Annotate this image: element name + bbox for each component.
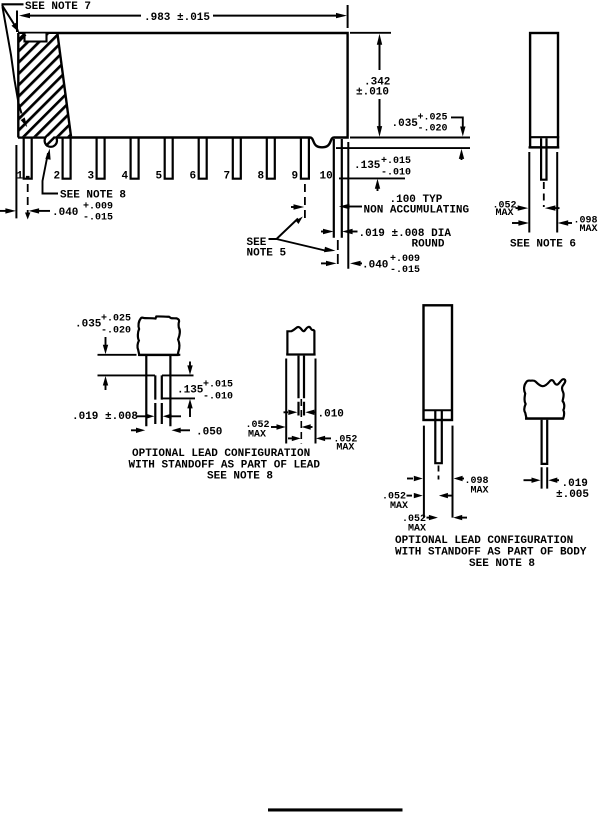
SEE NOTE 5 leader — [247, 217, 336, 260]
pin 8 — [267, 138, 275, 179]
detail A extension lines — [98, 354, 137, 356]
svg-text:.050: .050 — [196, 427, 222, 439]
svg-text:.035: .035 — [392, 118, 419, 130]
svg-text:MAX: MAX — [336, 442, 354, 453]
svg-text:.010: .010 — [318, 409, 344, 421]
svg-text:NOTE 5: NOTE 5 — [247, 247, 287, 259]
detail C dimension .052 MAX (lower) — [402, 514, 467, 535]
svg-text:10: 10 — [320, 171, 333, 183]
svg-text:MAX: MAX — [248, 430, 266, 441]
svg-text:OPTIONAL LEAD CONFIGURATION: OPTIONAL LEAD CONFIGURATION — [132, 448, 310, 460]
pin 10 — [334, 139, 342, 238]
svg-text:MAX: MAX — [471, 486, 489, 497]
SEE NOTE 8 leader (top left) — [43, 149, 127, 202]
detail D lead — [542, 420, 548, 464]
detail A dimension .019 — [72, 411, 181, 423]
detail B dimension .052 MAX (left) — [246, 420, 313, 441]
dimension .135 +.015 -.010 (top) — [354, 156, 411, 191]
svg-text:OPTIONAL LEAD CONFIGURATION: OPTIONAL LEAD CONFIGURATION — [395, 535, 573, 547]
dimension .983 +-.015 — [19, 12, 347, 24]
body right edge extension (up) — [347, 5, 349, 28]
detail A dimension .050 — [131, 427, 222, 439]
pin 4 — [131, 138, 139, 179]
svg-text:-.010: -.010 — [203, 392, 233, 403]
svg-text:.019 ±.008: .019 ±.008 — [72, 411, 138, 423]
svg-text:SEE NOTE 6: SEE NOTE 6 — [510, 239, 576, 251]
dimension .098 MAX (side view) — [512, 216, 598, 236]
detail B dimension .010 — [284, 409, 344, 421]
svg-text:WITH STANDOFF AS PART OF LEAD: WITH STANDOFF AS PART OF LEAD — [129, 459, 321, 471]
body bottom extension (right) — [350, 137, 470, 139]
dimension .342 +-.010 — [350, 33, 391, 137]
pin 6 — [199, 138, 207, 179]
break wedge line at left end — [3, 7, 22, 114]
svg-text:4: 4 — [122, 171, 129, 183]
side view pin — [541, 138, 546, 179]
detail C pin centerline — [438, 466, 440, 480]
detail C extension lines — [423, 426, 425, 518]
side view body (top right) — [529, 33, 560, 147]
detail C pin — [435, 410, 442, 463]
svg-text:+.025: +.025 — [418, 113, 448, 124]
svg-text:±.010: ±.010 — [356, 87, 389, 99]
pin 9 centerline — [304, 184, 306, 222]
svg-text:.983 ±.015: .983 ±.015 — [144, 12, 210, 24]
pin 5 — [165, 138, 173, 179]
svg-text:.040: .040 — [52, 207, 78, 219]
standoff ball bump near pin 2 — [45, 134, 57, 146]
svg-text:ROUND: ROUND — [412, 239, 445, 251]
svg-text:+.009: +.009 — [390, 254, 420, 265]
dimension .052 MAX (side view) — [493, 201, 560, 219]
left extension (up) for .983 — [16, 11, 18, 33]
body outline (front view) — [18, 33, 348, 147]
svg-text:-.015: -.015 — [83, 213, 113, 224]
svg-text:+.015: +.015 — [203, 380, 233, 391]
svg-text:8: 8 — [258, 171, 265, 183]
svg-text:MAX: MAX — [496, 208, 514, 219]
detail B body bottom — [286, 353, 315, 355]
svg-text:-.010: -.010 — [381, 168, 411, 179]
svg-text:SEE NOTE 8: SEE NOTE 8 — [469, 558, 535, 570]
dimension .035 +.025 -.020 (top) — [392, 113, 466, 161]
DETAIL D: torn body blob — [524, 379, 565, 418]
left edge extension line — [15, 145, 17, 218]
svg-text:.135: .135 — [354, 160, 381, 172]
svg-text:9: 9 — [292, 171, 299, 183]
pin 1 centerline — [27, 184, 29, 213]
svg-text:3: 3 — [88, 171, 95, 183]
detail A lead: wide standoff lines — [146, 356, 170, 427]
dimension .040 +.003 -.015 (right) — [321, 254, 420, 276]
svg-text:±.005: ±.005 — [556, 489, 589, 501]
detail D lead extension stubs — [542, 467, 548, 488]
pin 7 — [233, 138, 241, 179]
svg-text:+.015: +.015 — [381, 156, 411, 167]
detail B dimension .052 MAX (right) — [288, 435, 357, 454]
body right edge extension (down) — [347, 142, 349, 269]
svg-text:5: 5 — [156, 171, 163, 183]
svg-text:MAX: MAX — [580, 224, 598, 235]
detail D body bottom — [525, 417, 564, 419]
detail B lead — [299, 356, 305, 416]
pin 10 centerline — [337, 240, 339, 268]
svg-text:2: 2 — [54, 171, 61, 183]
svg-text:SEE NOTE 8: SEE NOTE 8 — [207, 471, 273, 483]
svg-text:-.015: -.015 — [390, 265, 420, 276]
svg-text:+.009: +.009 — [83, 202, 113, 213]
detail A dimension .035 — [75, 314, 131, 391]
DETAIL A: torn body blob — [137, 316, 179, 355]
svg-text:-.020: -.020 — [101, 326, 131, 337]
note 7 leader — [2, 3, 24, 5]
bottom separator line — [268, 808, 403, 811]
DETAIL B: body with wavy top — [287, 327, 314, 355]
svg-text:MAX: MAX — [390, 501, 408, 512]
detail B lead centerline — [300, 399, 302, 444]
svg-text:WITH STANDOFF AS PART OF BODY: WITH STANDOFF AS PART OF BODY — [395, 547, 587, 559]
svg-text:.135: .135 — [177, 385, 204, 397]
detail B extension lines — [285, 359, 287, 444]
svg-text:6: 6 — [190, 171, 197, 183]
svg-text:7: 7 — [224, 171, 231, 183]
svg-text:1: 1 — [17, 171, 24, 183]
detail A body bottom line — [138, 354, 180, 356]
svg-text:.035: .035 — [75, 319, 102, 331]
svg-text:SEE NOTE 8: SEE NOTE 8 — [60, 190, 126, 202]
dimension .019 +-.008 DIA ROUND — [321, 228, 451, 251]
svg-text:+.025: +.025 — [101, 314, 131, 325]
detail D dimension .019 — [524, 478, 590, 502]
pin 9 — [301, 138, 309, 179]
dimension .040 +.003 -.015 (left, pin 1) — [0, 202, 113, 224]
svg-text:NON ACCUMULATING: NON ACCUMULATING — [364, 205, 470, 217]
svg-text:MAX: MAX — [408, 524, 426, 535]
side view pin centerline — [543, 182, 545, 207]
svg-text:-.020: -.020 — [418, 124, 448, 135]
section hatch (cross-hatched end) — [18, 33, 71, 138]
detail C dimension .098 MAX — [407, 476, 489, 497]
pin 3 — [97, 138, 105, 179]
svg-text:.040: .040 — [362, 260, 388, 272]
DETAIL C: side view body tall — [424, 305, 453, 420]
detail C dimension .052 MAX (upper) — [382, 492, 452, 513]
detail A dimension .135 — [177, 362, 233, 418]
standoff bottom extension line — [336, 147, 470, 149]
pin 2 — [63, 138, 71, 179]
detail A lead: narrow lead lines — [155, 375, 162, 424]
detail C standoff shoulder line — [424, 409, 453, 411]
svg-text:SEE NOTE 7: SEE NOTE 7 — [25, 1, 91, 13]
dimension .100 TYP NON ACCUMULATING — [291, 194, 470, 217]
side view extension lines — [528, 152, 530, 233]
pin 1 — [24, 138, 32, 179]
pin tip extension line — [339, 177, 405, 179]
